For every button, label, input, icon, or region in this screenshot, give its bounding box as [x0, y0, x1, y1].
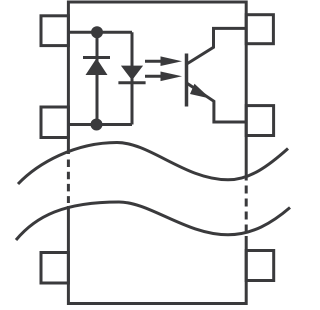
phototransistor Q1 emitter wire to pin 5 [187, 83, 246, 122]
pin 5 (emitter, middle right) [246, 106, 273, 136]
LED D2 cathode bar [118, 81, 145, 84]
phototransistor Q1 base bar [185, 54, 189, 107]
phototransistor Q1 emitter arrowhead [190, 84, 211, 99]
node junction dot bottom [91, 119, 103, 131]
package outline upper (top edge and upper sides) [68, 2, 246, 181]
package break wave lower [16, 202, 290, 240]
wire right branch (LED rail) [131, 32, 134, 124]
light arrow 1 head [161, 56, 183, 66]
phototransistor Q1 collector wire to pin 6 [187, 28, 246, 63]
package outline lower (bottom edge and lower sides) [68, 206, 246, 304]
wire left branch (protection diode rail) [96, 32, 99, 124]
protection diode D1 triangle (pointing up) [86, 58, 108, 75]
package left edge dashed segment [67, 160, 70, 204]
wire top rail from pin 1 [68, 31, 132, 34]
package right edge dashed segment [245, 186, 248, 234]
protection diode D1 cathode bar [83, 56, 110, 59]
pin 1 (anode, top left) [41, 16, 68, 46]
node junction dot top [91, 26, 103, 38]
pin 6 (collector, top right) [246, 15, 273, 44]
package break wave upper [18, 143, 288, 185]
pin 4 (bottom right) [246, 251, 274, 281]
pin 3 (bottom left) [41, 253, 68, 284]
wire bottom rail to pin 2 [68, 123, 132, 126]
LED D2 triangle (pointing down) [121, 66, 143, 81]
pin 2 (cathode, middle left) [41, 107, 68, 138]
light arrow 2 head [161, 72, 183, 82]
light arrow 2 shaft [145, 75, 163, 78]
light arrow 1 shaft [145, 60, 163, 63]
